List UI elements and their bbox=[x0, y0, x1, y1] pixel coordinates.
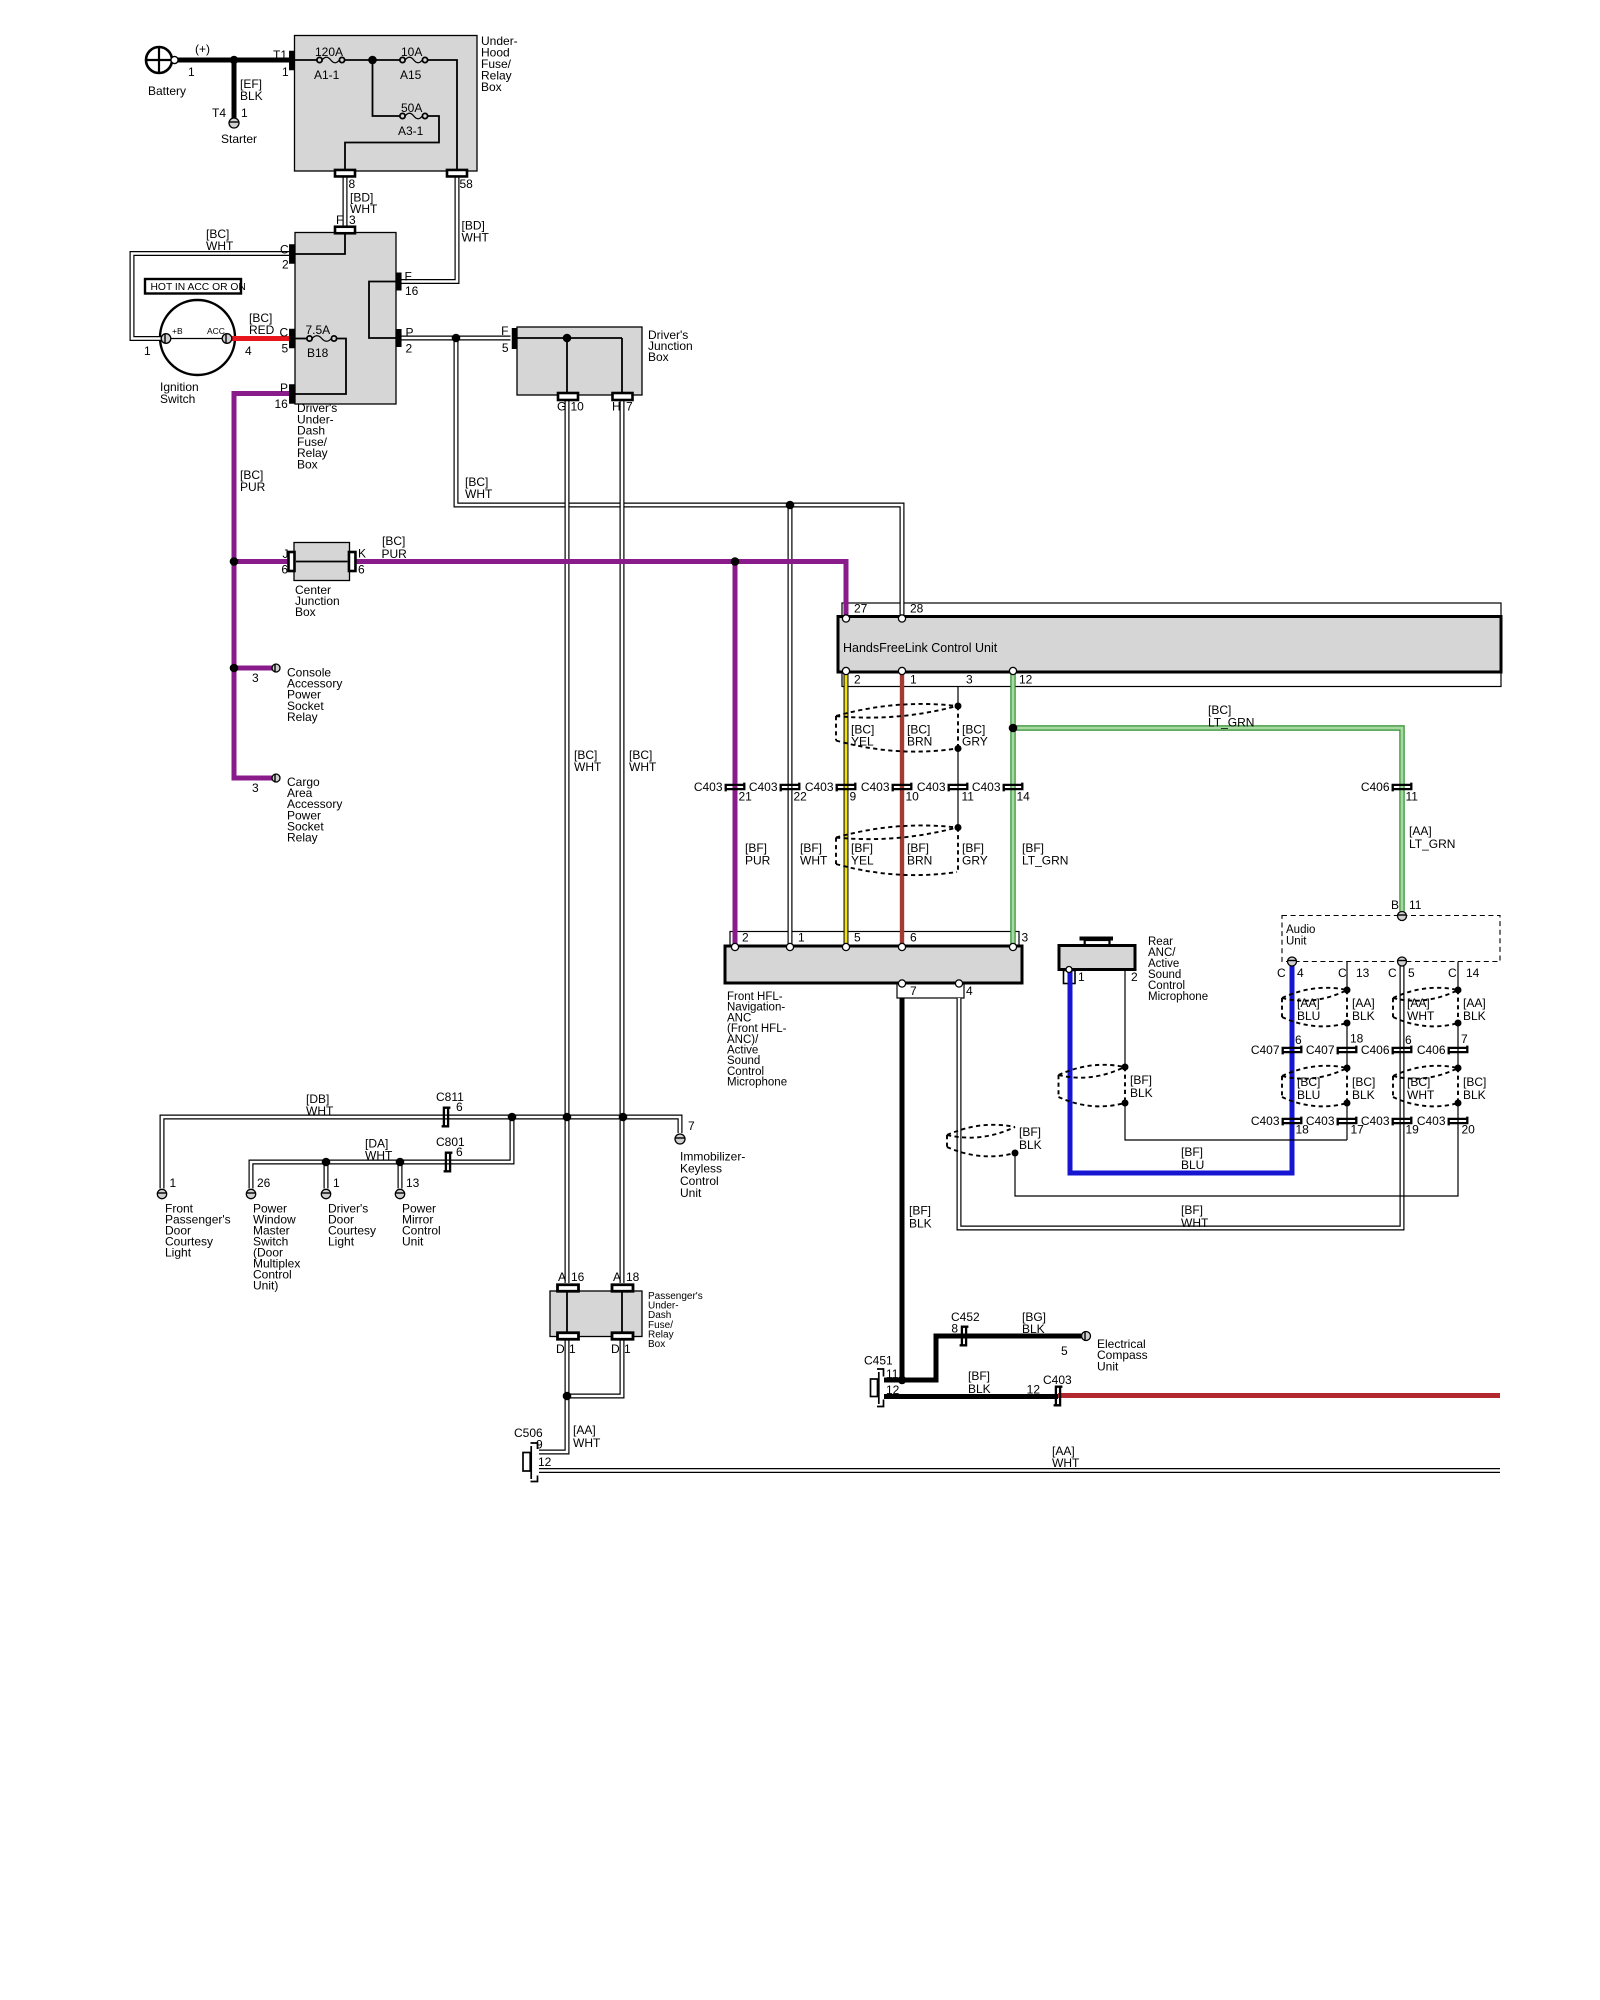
svg-text:C403: C403 bbox=[1043, 1373, 1072, 1387]
svg-text:T4: T4 bbox=[212, 106, 226, 120]
svg-text:T1: T1 bbox=[273, 48, 287, 62]
svg-text:C403: C403 bbox=[972, 780, 1001, 794]
svg-text:WHT: WHT bbox=[1052, 1456, 1080, 1470]
svg-text:18: 18 bbox=[626, 1270, 640, 1284]
svg-text:4: 4 bbox=[245, 344, 252, 358]
svg-text:12: 12 bbox=[886, 1383, 900, 1397]
svg-text:Microphone: Microphone bbox=[727, 1077, 787, 1089]
svg-text:C403: C403 bbox=[1361, 1114, 1390, 1128]
svg-text:J: J bbox=[283, 547, 289, 561]
svg-text:BLK: BLK bbox=[240, 89, 263, 103]
svg-text:GRY: GRY bbox=[962, 854, 988, 868]
svg-text:WHT: WHT bbox=[1181, 1216, 1209, 1230]
svg-text:3: 3 bbox=[966, 673, 973, 687]
svg-text:F: F bbox=[405, 270, 412, 284]
svg-text:G: G bbox=[557, 400, 566, 414]
svg-text:Unit: Unit bbox=[402, 1235, 424, 1249]
svg-text:A3-1: A3-1 bbox=[398, 124, 424, 138]
svg-text:12: 12 bbox=[1019, 673, 1033, 687]
svg-text:C403: C403 bbox=[694, 780, 723, 794]
svg-text:8: 8 bbox=[951, 1322, 958, 1336]
svg-text:2: 2 bbox=[854, 673, 861, 687]
svg-text:2: 2 bbox=[742, 931, 749, 945]
svg-text:P: P bbox=[406, 326, 414, 340]
svg-text:YEL: YEL bbox=[851, 854, 874, 868]
svg-text:[BC]: [BC] bbox=[1352, 1075, 1375, 1089]
svg-text:C: C bbox=[1388, 966, 1397, 980]
svg-text:WHT: WHT bbox=[206, 239, 234, 253]
svg-text:7: 7 bbox=[626, 400, 633, 414]
svg-text:BLK: BLK bbox=[1022, 1322, 1045, 1336]
svg-text:13: 13 bbox=[1356, 966, 1370, 980]
svg-text:14: 14 bbox=[1466, 966, 1480, 980]
svg-text:WHT: WHT bbox=[629, 760, 657, 774]
svg-text:WHT: WHT bbox=[573, 1436, 601, 1450]
svg-text:A15: A15 bbox=[400, 68, 422, 82]
svg-text:11: 11 bbox=[1406, 790, 1419, 804]
svg-text:14: 14 bbox=[1017, 790, 1031, 804]
svg-text:Unit: Unit bbox=[680, 1186, 702, 1200]
svg-text:1: 1 bbox=[624, 1342, 631, 1356]
svg-text:Light: Light bbox=[165, 1246, 192, 1260]
svg-text:(+): (+) bbox=[195, 42, 210, 56]
svg-text:Microphone: Microphone bbox=[1148, 991, 1208, 1003]
svg-text:C: C bbox=[1338, 966, 1347, 980]
svg-text:11: 11 bbox=[1409, 898, 1422, 912]
svg-text:27: 27 bbox=[854, 602, 868, 616]
svg-text:C403: C403 bbox=[1417, 1114, 1446, 1128]
svg-text:1: 1 bbox=[144, 344, 151, 358]
svg-text:BLK: BLK bbox=[1463, 1088, 1486, 1102]
svg-text:Unit: Unit bbox=[1286, 936, 1307, 948]
svg-text:PUR: PUR bbox=[240, 480, 266, 494]
svg-text:1: 1 bbox=[282, 65, 289, 79]
svg-text:6: 6 bbox=[456, 1145, 463, 1159]
svg-text:26: 26 bbox=[257, 1176, 271, 1190]
svg-text:BLU: BLU bbox=[1181, 1158, 1204, 1172]
svg-text:LT_GRN: LT_GRN bbox=[1409, 837, 1455, 851]
svg-text:F: F bbox=[501, 324, 508, 338]
svg-text:Battery: Battery bbox=[148, 84, 186, 98]
svg-text:5: 5 bbox=[502, 341, 509, 355]
svg-text:HOT IN ACC OR ON: HOT IN ACC OR ON bbox=[151, 282, 246, 293]
svg-text:9: 9 bbox=[536, 1438, 543, 1452]
svg-text:Audio: Audio bbox=[1286, 924, 1315, 936]
svg-text:C: C bbox=[280, 243, 289, 257]
svg-text:WHT: WHT bbox=[1407, 1009, 1435, 1023]
svg-text:C406: C406 bbox=[1361, 1043, 1390, 1057]
svg-text:2: 2 bbox=[1131, 970, 1138, 984]
svg-text:28: 28 bbox=[910, 602, 924, 616]
svg-text:Box: Box bbox=[648, 350, 669, 364]
svg-text:C: C bbox=[1277, 966, 1286, 980]
svg-text:[BF]: [BF] bbox=[909, 1204, 931, 1218]
svg-text:13: 13 bbox=[406, 1176, 420, 1190]
svg-text:6: 6 bbox=[1405, 1033, 1412, 1047]
svg-text:C403: C403 bbox=[1306, 1114, 1335, 1128]
svg-text:C403: C403 bbox=[917, 780, 946, 794]
svg-text:Light: Light bbox=[328, 1235, 355, 1249]
svg-text:4: 4 bbox=[966, 984, 973, 998]
svg-text:16: 16 bbox=[405, 284, 419, 298]
svg-text:[AA]: [AA] bbox=[1297, 996, 1320, 1010]
svg-text:WHT: WHT bbox=[365, 1149, 393, 1163]
svg-text:F: F bbox=[336, 213, 343, 227]
svg-text:12: 12 bbox=[538, 1455, 552, 1469]
svg-text:Unit: Unit bbox=[1097, 1359, 1119, 1373]
svg-text:3: 3 bbox=[252, 781, 259, 795]
svg-text:YEL: YEL bbox=[851, 735, 874, 749]
svg-text:C406: C406 bbox=[1417, 1043, 1446, 1057]
svg-text:D: D bbox=[556, 1342, 565, 1356]
svg-text:A1-1: A1-1 bbox=[314, 68, 340, 82]
svg-text:3: 3 bbox=[1022, 931, 1029, 945]
svg-text:Starter: Starter bbox=[221, 132, 257, 146]
svg-text:BLK: BLK bbox=[1130, 1086, 1153, 1100]
svg-text:6: 6 bbox=[456, 1100, 463, 1114]
svg-text:[AA]: [AA] bbox=[1352, 996, 1375, 1010]
svg-text:8: 8 bbox=[349, 177, 356, 191]
svg-text:BLK: BLK bbox=[1352, 1009, 1375, 1023]
svg-text:A: A bbox=[558, 1270, 566, 1284]
svg-text:PUR: PUR bbox=[745, 854, 771, 868]
svg-text:PUR: PUR bbox=[382, 547, 408, 561]
svg-text:P: P bbox=[280, 381, 288, 395]
svg-text:GRY: GRY bbox=[962, 735, 988, 749]
svg-text:ACC: ACC bbox=[207, 326, 225, 336]
svg-text:12: 12 bbox=[1027, 1383, 1041, 1397]
svg-text:RED: RED bbox=[249, 323, 275, 337]
svg-text:C407: C407 bbox=[1251, 1043, 1280, 1057]
svg-text:5: 5 bbox=[1061, 1344, 1068, 1358]
svg-text:1: 1 bbox=[798, 931, 805, 945]
svg-text:5: 5 bbox=[854, 931, 861, 945]
svg-text:[BF]: [BF] bbox=[1019, 1125, 1041, 1139]
svg-text:1: 1 bbox=[170, 1176, 177, 1190]
svg-text:5: 5 bbox=[1408, 966, 1415, 980]
svg-text:[BF]: [BF] bbox=[1130, 1073, 1152, 1087]
svg-text:2: 2 bbox=[406, 342, 413, 356]
svg-text:Box: Box bbox=[481, 80, 502, 94]
svg-text:16: 16 bbox=[275, 397, 289, 411]
svg-text:6: 6 bbox=[358, 563, 365, 577]
svg-text:[BC]: [BC] bbox=[382, 534, 405, 548]
svg-text:[AA]: [AA] bbox=[573, 1423, 596, 1437]
svg-text:2: 2 bbox=[282, 258, 289, 272]
svg-text:Relay: Relay bbox=[287, 831, 318, 845]
svg-text:BLK: BLK bbox=[1019, 1138, 1042, 1152]
svg-text:+B: +B bbox=[172, 326, 183, 336]
svg-text:Box: Box bbox=[297, 458, 318, 472]
svg-text:C403: C403 bbox=[749, 780, 778, 794]
svg-text:7: 7 bbox=[1461, 1032, 1468, 1046]
svg-text:H: H bbox=[612, 400, 621, 414]
svg-text:Switch: Switch bbox=[160, 392, 195, 406]
svg-text:[BF]: [BF] bbox=[1181, 1145, 1203, 1159]
svg-text:1: 1 bbox=[241, 106, 248, 120]
svg-text:A: A bbox=[613, 1270, 621, 1284]
svg-text:1: 1 bbox=[333, 1176, 340, 1190]
svg-text:5: 5 bbox=[282, 342, 289, 356]
svg-text:C: C bbox=[280, 326, 289, 340]
svg-text:WHT: WHT bbox=[574, 760, 602, 774]
svg-text:WHT: WHT bbox=[306, 1104, 334, 1118]
svg-text:9: 9 bbox=[850, 790, 857, 804]
svg-text:BRN: BRN bbox=[907, 735, 932, 749]
svg-text:[AA]: [AA] bbox=[1407, 996, 1430, 1010]
svg-text:7.5A: 7.5A bbox=[306, 323, 331, 337]
svg-text:D: D bbox=[611, 1342, 620, 1356]
svg-text:1: 1 bbox=[1078, 970, 1085, 984]
svg-text:Relay: Relay bbox=[287, 710, 318, 724]
svg-text:C403: C403 bbox=[805, 780, 834, 794]
svg-text:7: 7 bbox=[688, 1119, 695, 1133]
svg-text:7: 7 bbox=[910, 984, 917, 998]
svg-text:[BF]: [BF] bbox=[968, 1369, 990, 1383]
svg-text:C407: C407 bbox=[1306, 1043, 1335, 1057]
svg-text:[BC]: [BC] bbox=[1463, 1075, 1486, 1089]
svg-text:6: 6 bbox=[910, 931, 917, 945]
svg-text:Box: Box bbox=[295, 605, 316, 619]
svg-text:10A: 10A bbox=[401, 45, 422, 59]
svg-text:16: 16 bbox=[571, 1270, 585, 1284]
svg-text:WHT: WHT bbox=[1407, 1088, 1435, 1102]
svg-text:BLK: BLK bbox=[909, 1217, 932, 1231]
svg-text:C403: C403 bbox=[1251, 1114, 1280, 1128]
svg-text:6: 6 bbox=[1295, 1033, 1302, 1047]
svg-text:Box: Box bbox=[648, 1339, 665, 1350]
svg-text:LT_GRN: LT_GRN bbox=[1208, 716, 1254, 730]
svg-text:BLU: BLU bbox=[1297, 1088, 1320, 1102]
svg-text:1: 1 bbox=[569, 1342, 576, 1356]
svg-text:BLU: BLU bbox=[1297, 1009, 1320, 1023]
svg-text:BRN: BRN bbox=[907, 854, 932, 868]
svg-text:BLK: BLK bbox=[1463, 1009, 1486, 1023]
svg-text:20: 20 bbox=[1462, 1123, 1476, 1137]
svg-text:50A: 50A bbox=[401, 101, 422, 115]
svg-text:[BC]: [BC] bbox=[1297, 1075, 1320, 1089]
svg-text:[BC]: [BC] bbox=[1407, 1075, 1430, 1089]
svg-text:WHT: WHT bbox=[800, 854, 828, 868]
svg-text:LT_GRN: LT_GRN bbox=[1022, 854, 1068, 868]
svg-text:3: 3 bbox=[349, 213, 356, 227]
svg-text:C403: C403 bbox=[861, 780, 890, 794]
svg-text:WHT: WHT bbox=[462, 230, 490, 244]
svg-text:BLK: BLK bbox=[968, 1382, 991, 1396]
svg-text:B: B bbox=[1391, 898, 1399, 912]
svg-text:HandsFreeLink Control Unit: HandsFreeLink Control Unit bbox=[843, 641, 998, 655]
svg-text:WHT: WHT bbox=[465, 487, 493, 501]
svg-text:120A: 120A bbox=[315, 45, 343, 59]
svg-text:11: 11 bbox=[886, 1367, 899, 1381]
svg-text:[BF]: [BF] bbox=[1181, 1203, 1203, 1217]
svg-text:58: 58 bbox=[460, 177, 474, 191]
svg-text:C: C bbox=[1448, 966, 1457, 980]
svg-text:[AA]: [AA] bbox=[1463, 996, 1486, 1010]
svg-text:Unit): Unit) bbox=[253, 1279, 278, 1293]
svg-text:C451: C451 bbox=[864, 1354, 893, 1368]
svg-text:C406: C406 bbox=[1361, 780, 1390, 794]
svg-text:1: 1 bbox=[188, 65, 195, 79]
svg-text:3: 3 bbox=[252, 671, 259, 685]
svg-text:BLK: BLK bbox=[1352, 1088, 1375, 1102]
svg-text:[AA]: [AA] bbox=[1409, 824, 1432, 838]
svg-text:K: K bbox=[358, 547, 366, 561]
svg-text:6: 6 bbox=[281, 563, 288, 577]
svg-text:4: 4 bbox=[1297, 966, 1304, 980]
svg-text:10: 10 bbox=[571, 400, 585, 414]
svg-text:B18: B18 bbox=[307, 346, 329, 360]
svg-text:1: 1 bbox=[910, 673, 917, 687]
